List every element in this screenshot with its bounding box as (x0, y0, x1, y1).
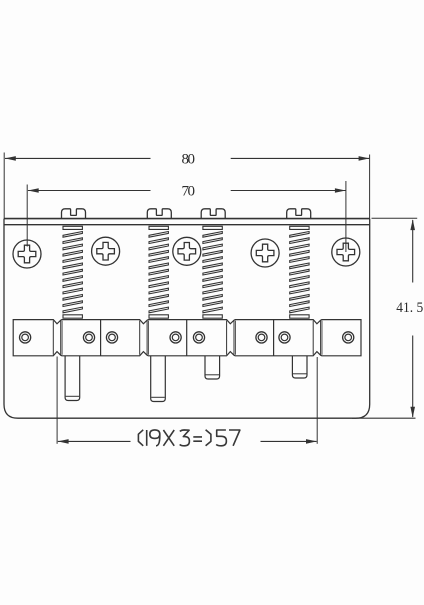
svg-text:41. 5: 41. 5 (396, 300, 423, 316)
mounting screw 3 (phillips head) (173, 237, 201, 265)
dimension (19X3=)57: label (138, 430, 240, 446)
svg-text:80: 80 (182, 152, 196, 168)
intonation spring 1 (63, 226, 82, 318)
mounting screw 2 (phillips head) (92, 237, 120, 265)
saddle string groove walls (53, 321, 322, 355)
saddle height-screw holes (20, 332, 354, 343)
dimension 80: dimension line with arrows (5, 156, 369, 161)
plate flange top edge (double line) (4, 219, 370, 225)
dimension 70: dimension line with arrows (28, 188, 346, 193)
intonation spring 3 (203, 226, 222, 318)
dimension 70: extension lines (27, 181, 346, 252)
saddle row outline with string grooves (13, 320, 361, 356)
intonation screw head 1 (62, 209, 86, 219)
dimension 41.5: dimension line with arrows (410, 219, 415, 417)
intonation screw head 4 (287, 209, 311, 219)
mounting screw 4 (phillips head) (251, 239, 279, 267)
dimension 80: extension lines (4, 153, 369, 219)
dimension 41.5: extension lines (352, 218, 417, 418)
intonation screw tip 1 (65, 356, 80, 401)
intonation screw head 3 (201, 209, 225, 219)
dimension (19X3=)57: extension lines (57, 357, 317, 444)
intonation spring 2 (149, 226, 168, 318)
bridge plate outline (4, 219, 370, 419)
mounting screw 1 (phillips head) (13, 240, 41, 268)
intonation spring 4 (290, 226, 309, 318)
intonation screw tip 4 (292, 356, 307, 378)
mounting screw 5 (phillips head) (332, 238, 360, 266)
intonation screw tip 3 (205, 356, 220, 379)
intonation screw head 2 (147, 209, 171, 219)
dimension (19X3=)57: dimension line with arrows (58, 439, 317, 444)
svg-text:70: 70 (182, 184, 196, 200)
intonation screw tip 2 (151, 356, 166, 402)
saddle junction lines (101, 320, 274, 356)
